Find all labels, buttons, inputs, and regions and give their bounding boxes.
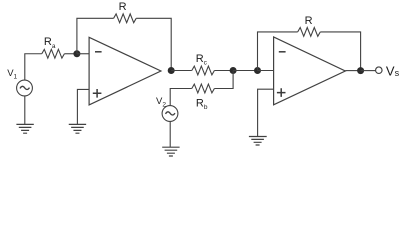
resistor Rc: [192, 66, 215, 75]
wire Rc to node C: [214, 70, 233, 72]
wire node E to output terminal: [361, 70, 376, 72]
op-amp U2: [274, 37, 346, 105]
wire Ra to node A: [64, 53, 77, 55]
U1 inverting pin minus sign: [95, 51, 102, 53]
node D (U2 input) junction: [254, 67, 261, 74]
svg-text:R: R: [119, 1, 127, 13]
resistor Ra: [42, 49, 65, 58]
voltage source V2: [162, 106, 178, 122]
svg-text:Ra: Ra: [44, 36, 56, 50]
wire node C to node D: [233, 70, 257, 72]
ground (below V1): [16, 124, 33, 133]
svg-text:Rc: Rc: [196, 53, 208, 67]
wire node A to U1 inverting input: [77, 53, 89, 55]
wire U1 plus input to ground: [77, 89, 89, 124]
wire node C down to resistor Rb: [214, 71, 233, 89]
wire U2 output to node E: [345, 70, 360, 72]
svg-text:V1: V1: [7, 68, 17, 81]
U2 non-inverting pin plus sign: [277, 88, 286, 97]
wire R2 to U2 output node: [320, 32, 360, 71]
output terminal Vs: [376, 67, 383, 74]
wire R1 to U1 output node: [136, 18, 171, 70]
ground (U2 non-inverting): [249, 137, 267, 146]
wire V1 to resistor Ra: [25, 54, 42, 80]
wire U2 feedback loop left and top: [258, 32, 298, 71]
wire node B to resistor Rc: [171, 70, 192, 72]
U2 inverting pin minus sign: [279, 51, 286, 53]
wire U2 plus input to ground: [258, 89, 274, 136]
resistor R1 (left feedback R): [114, 14, 137, 23]
voltage source V1: [17, 80, 33, 96]
node E (output) junction: [357, 67, 364, 74]
svg-text:Rb: Rb: [196, 98, 208, 112]
op-amp U1: [89, 37, 161, 105]
ground (below V2): [162, 147, 179, 156]
wire node D to U2 inverting input: [258, 70, 274, 72]
wire U1 feedback loop left and top: [77, 18, 114, 53]
node C junction: [230, 67, 237, 74]
ground (U1 non-inverting): [69, 124, 86, 133]
wire V2 to ground: [169, 121, 171, 147]
wire V1 to ground: [24, 96, 26, 125]
resistor Rb: [192, 84, 215, 93]
node A junction: [73, 50, 80, 57]
resistor R2 (right feedback R): [298, 28, 321, 37]
svg-text:Vs: Vs: [386, 64, 400, 79]
svg-text:R: R: [305, 15, 313, 27]
svg-text:V2: V2: [156, 96, 166, 109]
U1 non-inverting pin plus sign: [93, 89, 102, 98]
wire Rb to voltage source V2: [170, 89, 192, 106]
node B (U1 output) junction: [168, 67, 175, 74]
